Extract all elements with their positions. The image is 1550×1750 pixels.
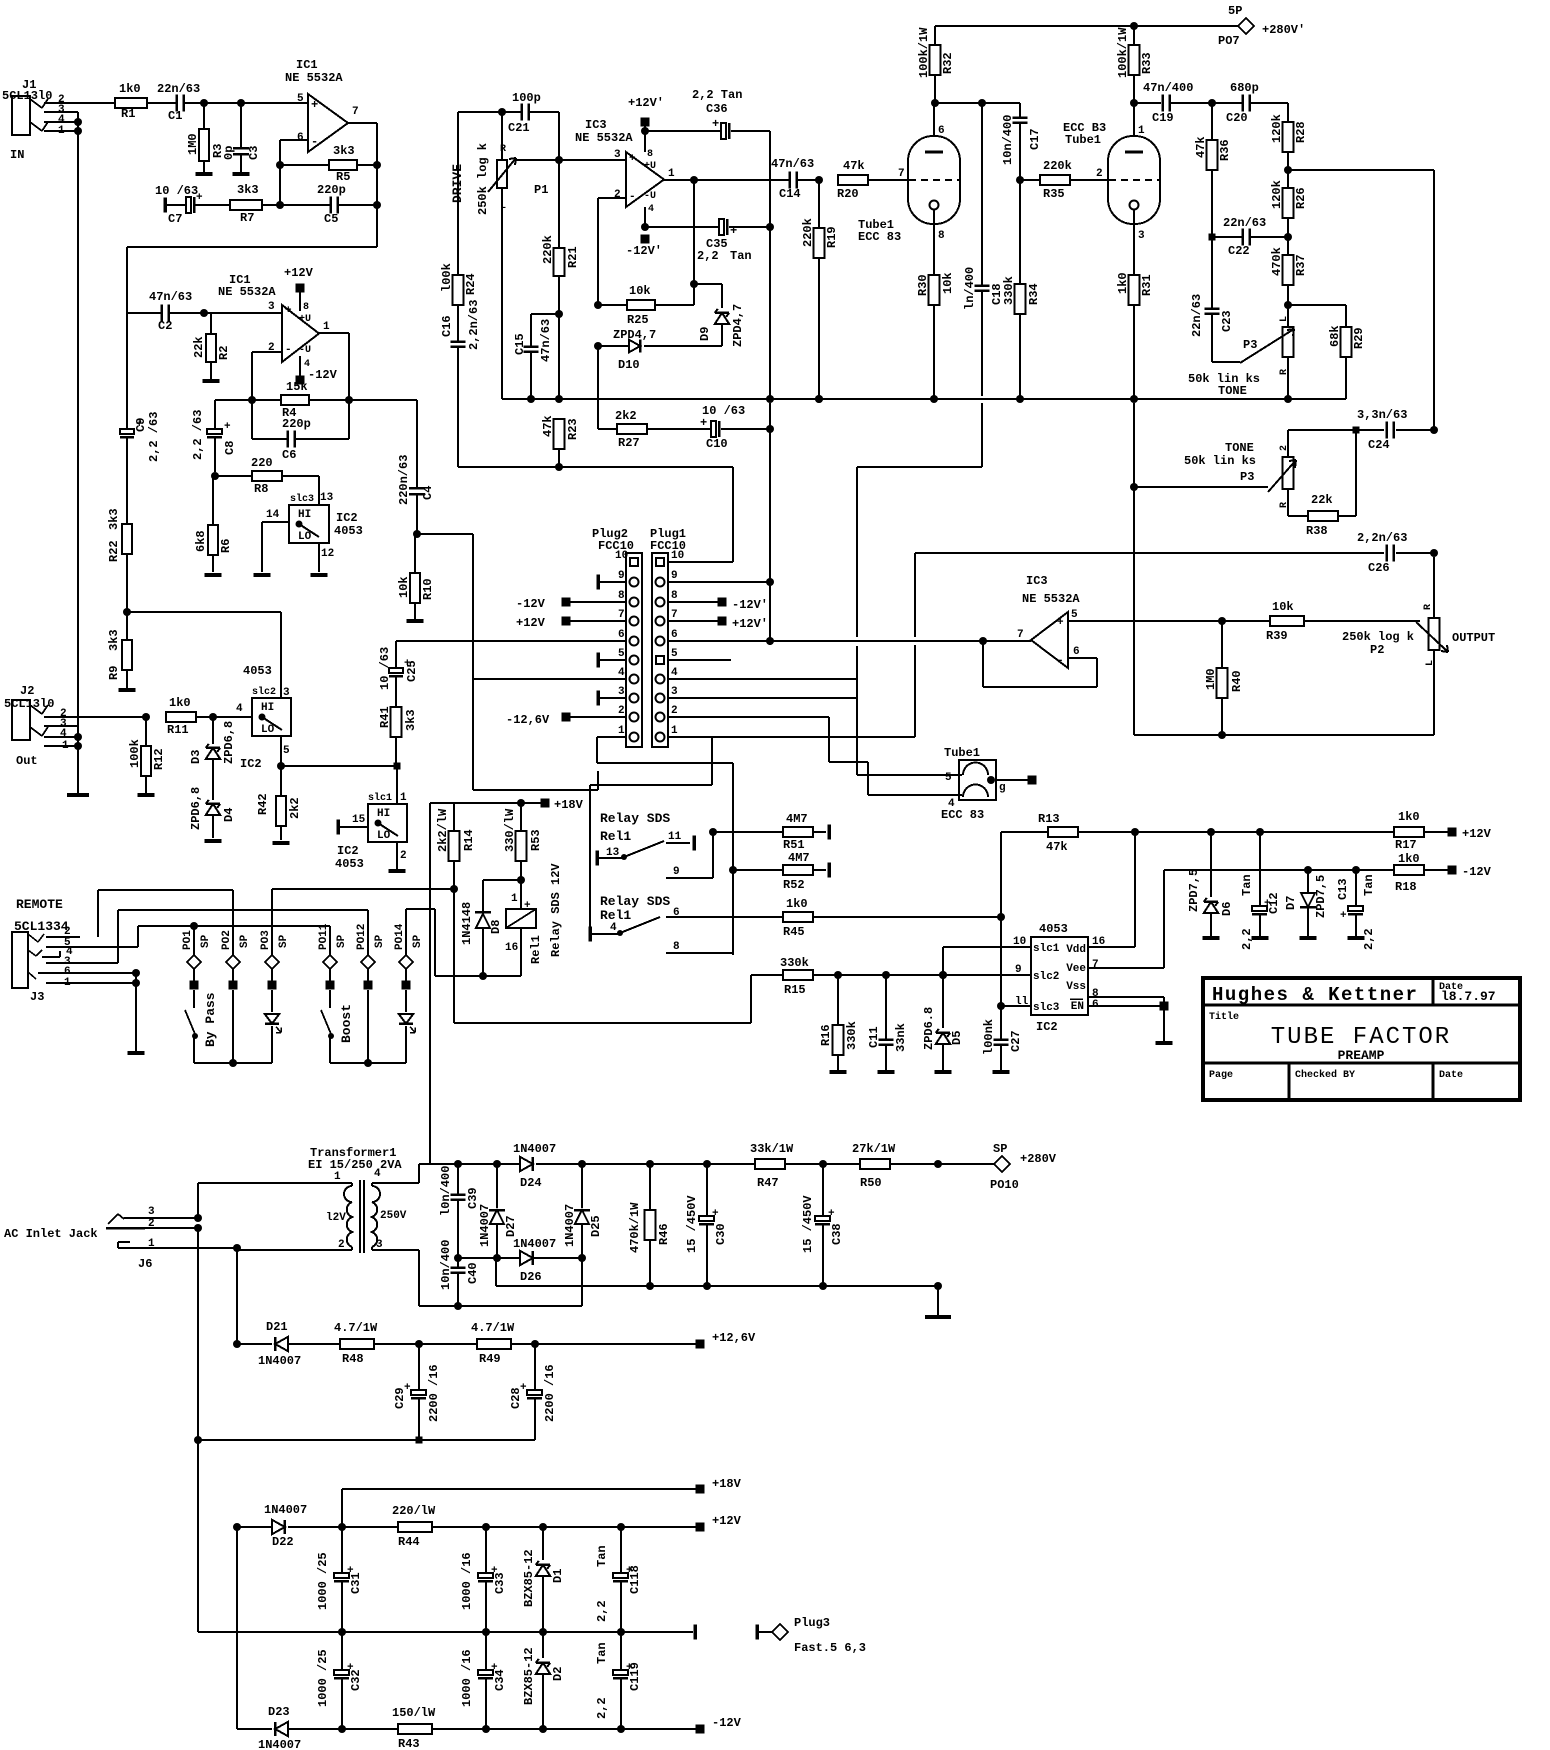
svg-text:C14: C14	[779, 187, 801, 201]
svg-text:SP: SP	[336, 934, 348, 948]
wire J1 to R1	[78, 102, 115, 104]
svg-text:C16: C16	[440, 315, 454, 337]
svg-text:HI: HI	[377, 808, 390, 820]
wire Plug2 pin1	[597, 736, 626, 738]
resistor R51	[783, 827, 813, 837]
svg-text:1: 1	[668, 168, 675, 180]
svg-text:LO: LO	[261, 724, 275, 736]
svg-text:C38: C38	[830, 1223, 844, 1245]
capacitor C40	[457, 1258, 459, 1267]
svg-text:C5: C5	[324, 212, 338, 226]
svg-text:R48: R48	[342, 1352, 364, 1366]
wire IC3a -in chain down	[597, 346, 599, 429]
svg-text:-12V': -12V'	[732, 598, 768, 612]
svg-text:8: 8	[673, 941, 680, 953]
svg-text:3: 3	[148, 1206, 155, 1218]
svg-text:R: R	[500, 144, 506, 155]
capacitor C8	[214, 400, 216, 429]
svg-text:NE 5532A: NE 5532A	[218, 285, 276, 299]
svg-text:IC2: IC2	[337, 844, 359, 858]
svg-text:9: 9	[1015, 964, 1022, 976]
svg-text:R46: R46	[657, 1223, 671, 1245]
svg-text:10n/400: 10n/400	[1001, 115, 1015, 165]
svg-text:C24: C24	[1368, 438, 1390, 452]
svg-text:R53: R53	[529, 829, 543, 851]
svg-text:8: 8	[647, 149, 653, 160]
svg-text:+U: +U	[644, 161, 656, 172]
svg-text:R38: R38	[1306, 524, 1328, 538]
svg-text:2200 /16: 2200 /16	[427, 1364, 441, 1422]
resistor R26	[1287, 170, 1289, 188]
wire C4 to R10	[415, 533, 473, 535]
terminal PO7 +280V	[1238, 18, 1254, 34]
pad PO3 with LED	[271, 889, 273, 956]
svg-text:4.7/1W: 4.7/1W	[334, 1321, 378, 1335]
svg-text:PO12: PO12	[356, 924, 368, 950]
svg-text:1N4007: 1N4007	[258, 1738, 301, 1750]
wire primary bottom	[351, 1247, 353, 1250]
ground under C11	[878, 1070, 895, 1074]
capacitor C12 tantalum	[1259, 832, 1261, 906]
op-amp IC1 A	[308, 94, 348, 152]
svg-text:1N4007: 1N4007	[264, 1503, 307, 1517]
svg-text:11: 11	[668, 831, 682, 843]
wire Plug2 pin3 stub	[596, 691, 600, 706]
svg-text:D9: D9	[698, 327, 712, 341]
capacitor C7	[163, 198, 167, 213]
capacitor C6	[251, 400, 253, 439]
wire +18V node	[430, 802, 545, 804]
svg-text:C28: C28	[509, 1387, 523, 1409]
svg-text:220p: 220p	[317, 183, 346, 197]
svg-text:3k3: 3k3	[404, 709, 418, 731]
connector J3 remote jack	[12, 932, 28, 988]
svg-text:Relay SDS: Relay SDS	[600, 894, 670, 909]
svg-text:47k: 47k	[1194, 136, 1208, 158]
svg-text:7: 7	[352, 106, 359, 118]
svg-text:J6: J6	[138, 1257, 152, 1271]
zener D7	[1307, 870, 1309, 897]
svg-text:10k: 10k	[629, 284, 651, 298]
svg-text:l00nk: l00nk	[982, 1019, 996, 1055]
stub Plug2 pin5	[596, 653, 600, 668]
svg-text:P3: P3	[1240, 470, 1254, 484]
ground under R42	[273, 841, 290, 845]
resistor R24	[457, 112, 459, 275]
svg-text:-12V: -12V	[516, 597, 546, 611]
svg-text:3k3: 3k3	[107, 629, 121, 651]
svg-text:+: +	[224, 421, 231, 433]
svg-text:R41: R41	[378, 706, 392, 728]
svg-text:C29: C29	[393, 1387, 407, 1409]
svg-text:47n/63: 47n/63	[771, 157, 814, 171]
resistor R6	[212, 476, 214, 525]
svg-text:R36: R36	[1218, 139, 1232, 161]
svg-text:250k log k: 250k log k	[476, 143, 490, 215]
svg-text:C11: C11	[867, 1026, 881, 1048]
capacitor C30	[706, 1164, 708, 1216]
resistor R50	[860, 1159, 890, 1169]
svg-text:Page: Page	[1209, 1070, 1233, 1081]
svg-text:SP: SP	[200, 934, 212, 948]
svg-text:4: 4	[60, 728, 67, 740]
resistor R20	[838, 175, 868, 185]
svg-text:R33: R33	[1140, 52, 1154, 74]
wire J3 pin3 net	[117, 910, 119, 963]
wire J3 ground net	[132, 969, 140, 977]
svg-text:C25: C25	[405, 660, 419, 682]
svg-text:C30: C30	[714, 1223, 728, 1245]
wire R22 node to slc2	[127, 611, 281, 613]
svg-text:Rel1: Rel1	[600, 908, 631, 923]
wire row C	[458, 466, 733, 468]
svg-text:R: R	[1423, 604, 1434, 610]
resistor R49	[477, 1339, 511, 1349]
svg-text:R5: R5	[336, 170, 350, 184]
svg-text:100k/1W: 100k/1W	[917, 27, 931, 78]
svg-text:8: 8	[303, 302, 309, 313]
svg-text:R7: R7	[240, 211, 254, 225]
diode D8 1N4148	[483, 879, 521, 881]
svg-text:100k: 100k	[128, 739, 142, 768]
svg-text:Tan: Tan	[1362, 874, 1376, 896]
svg-text:Rel1: Rel1	[600, 829, 631, 844]
svg-text:R19: R19	[825, 226, 839, 248]
svg-text:3: 3	[1138, 230, 1145, 242]
triode Tube1 A	[933, 103, 935, 150]
wire R45 column	[1000, 832, 1002, 917]
svg-text:C15: C15	[513, 333, 527, 355]
svg-text:C23: C23	[1220, 310, 1234, 332]
svg-text:C6: C6	[282, 448, 296, 462]
resistor R48	[340, 1339, 374, 1349]
svg-text:2: 2	[1096, 168, 1103, 180]
svg-text:+: +	[700, 416, 707, 430]
ground under D6	[1203, 936, 1220, 940]
svg-text:2,2: 2,2	[595, 1697, 609, 1719]
svg-text:J3: J3	[30, 990, 44, 1004]
svg-text:47k: 47k	[843, 159, 865, 173]
wire mid supply rail	[198, 1631, 693, 1633]
wire R28 junction right	[1288, 169, 1434, 171]
wire rectifier top rail	[419, 1163, 522, 1165]
svg-text:33nk: 33nk	[894, 1023, 908, 1052]
terminal Plug3	[755, 1625, 759, 1640]
svg-text:1N4007: 1N4007	[513, 1142, 556, 1156]
svg-text:ZPD6,8: ZPD6,8	[222, 721, 236, 764]
svg-text:R23: R23	[566, 418, 580, 440]
svg-text:47k: 47k	[541, 415, 555, 437]
svg-text:R22: R22	[107, 540, 121, 562]
svg-text:Tan: Tan	[1240, 874, 1254, 896]
svg-text:PO10: PO10	[990, 1178, 1019, 1192]
resistor R11	[142, 713, 150, 721]
ground Vss	[1156, 1041, 1173, 1045]
svg-text:R34: R34	[1027, 283, 1041, 305]
svg-text:Rel1: Rel1	[529, 935, 543, 964]
svg-text:l2V: l2V	[326, 1212, 346, 1224]
svg-text:120k: 120k	[1270, 114, 1284, 143]
ground under R10	[407, 619, 424, 623]
diode D24 1N4007	[520, 1157, 533, 1171]
svg-text:2: 2	[614, 189, 621, 201]
zener D3	[212, 717, 214, 744]
svg-text:Tube1: Tube1	[1065, 133, 1101, 147]
svg-text:1M0: 1M0	[186, 133, 200, 155]
svg-text:7: 7	[671, 609, 678, 621]
svg-text:1: 1	[58, 125, 65, 137]
svg-text:8: 8	[938, 230, 945, 242]
svg-text:1k0: 1k0	[1398, 852, 1420, 866]
svg-text:2: 2	[671, 705, 678, 717]
resistor R36	[1211, 103, 1213, 140]
svg-text:BZX85-12: BZX85-12	[522, 1549, 536, 1607]
svg-text:Tan: Tan	[595, 1642, 609, 1664]
resistor R28	[1287, 103, 1289, 122]
svg-text:13: 13	[606, 847, 620, 859]
pad PO12	[367, 910, 369, 956]
stub Plug2 pin9	[596, 575, 600, 590]
resistor R46	[649, 1164, 651, 1210]
svg-text:Tube1: Tube1	[944, 746, 980, 760]
potentiometer P1 DRIVE	[501, 112, 503, 160]
zener D2 BZX85-12	[542, 1632, 544, 1658]
svg-text:L: L	[1425, 660, 1436, 666]
capacitor C25	[395, 641, 397, 668]
svg-text:4: 4	[236, 703, 243, 715]
svg-text:3k3: 3k3	[107, 508, 121, 530]
svg-text:C17: C17	[1028, 128, 1042, 150]
pad PO1 with By Pass switch	[193, 926, 195, 956]
svg-text:PO2: PO2	[221, 930, 233, 950]
resistor R12	[145, 717, 147, 746]
potentiometer P3 upper TONE	[1283, 327, 1294, 357]
svg-text:Fast.5 6,3: Fast.5 6,3	[794, 1641, 866, 1655]
svg-text:27k/1W: 27k/1W	[852, 1142, 896, 1156]
capacitor C24	[1288, 429, 1384, 431]
svg-text:6k8: 6k8	[194, 530, 208, 552]
svg-text:By Pass: By Pass	[203, 992, 218, 1047]
wire -12V row	[1164, 869, 1395, 871]
svg-text:slc1: slc1	[368, 792, 392, 804]
wire secondary bottom	[371, 1247, 373, 1250]
svg-text:5: 5	[671, 648, 678, 660]
svg-text:Title: Title	[1209, 1011, 1239, 1023]
svg-text:C40: C40	[466, 1262, 480, 1284]
svg-text:22k: 22k	[192, 336, 206, 358]
svg-text:D23: D23	[268, 1705, 290, 1719]
svg-text:120k: 120k	[1270, 180, 1284, 209]
svg-text:1k0: 1k0	[1116, 272, 1130, 294]
svg-text:C8: C8	[223, 441, 237, 455]
wire IC1b -in	[252, 351, 282, 353]
svg-text:4053: 4053	[335, 857, 364, 871]
ground under R3	[196, 172, 213, 176]
svg-text:1k0: 1k0	[1398, 810, 1420, 824]
svg-text:C36: C36	[706, 102, 728, 116]
svg-text:1000 /25: 1000 /25	[316, 1552, 330, 1610]
svg-text:R14: R14	[462, 829, 476, 851]
power -12V' IC3a	[644, 207, 646, 227]
svg-text:2,2n/63: 2,2n/63	[1357, 531, 1407, 545]
svg-text:47n/63: 47n/63	[149, 290, 192, 304]
svg-text:7: 7	[898, 168, 905, 180]
svg-text:PO1: PO1	[182, 930, 194, 950]
svg-text:1000 /25: 1000 /25	[316, 1649, 330, 1707]
svg-text:C31: C31	[349, 1572, 363, 1594]
capacitor C4	[416, 400, 418, 487]
resistor R27	[598, 428, 617, 430]
title block frame	[1203, 978, 1520, 1100]
ground under C27	[993, 1070, 1010, 1074]
svg-text:16: 16	[505, 942, 518, 954]
svg-text:ln/400: ln/400	[963, 267, 977, 310]
potentiometer P2 OUTPUT	[1433, 557, 1435, 618]
ground under slc3 pin12	[311, 573, 328, 577]
svg-text:C13: C13	[1336, 878, 1350, 900]
wire +280V top rail	[935, 25, 1238, 27]
svg-text:R18: R18	[1395, 880, 1417, 894]
resistor R45	[783, 912, 813, 922]
svg-text:+280V': +280V'	[1262, 23, 1305, 37]
wire IC3b +in	[1068, 620, 1222, 622]
svg-text:P1: P1	[534, 183, 548, 197]
wire mid rail	[458, 1257, 582, 1259]
svg-text:10: 10	[615, 550, 628, 562]
svg-text:1: 1	[671, 725, 678, 737]
svg-text:R1: R1	[121, 107, 135, 121]
svg-text:5: 5	[283, 745, 290, 757]
svg-text:0p: 0p	[222, 146, 236, 160]
op-amp IC3 A	[626, 152, 664, 207]
wire top rail junctions	[578, 1160, 586, 1168]
svg-text:2,2n/63: 2,2n/63	[467, 300, 481, 350]
svg-text:SP: SP	[412, 934, 424, 948]
wire R1 to C1	[147, 102, 176, 104]
svg-text:2k2: 2k2	[288, 797, 302, 819]
svg-text:R11: R11	[167, 723, 189, 737]
potentiometer P3 lower	[1283, 457, 1294, 489]
heater junction g	[987, 776, 995, 784]
svg-text:47n/400: 47n/400	[1143, 81, 1193, 95]
svg-text:-12V': -12V'	[626, 244, 662, 258]
svg-text:8: 8	[671, 590, 678, 602]
resistor R43	[398, 1724, 432, 1734]
svg-text:R51: R51	[783, 838, 805, 852]
svg-text:1: 1	[323, 321, 330, 333]
zener D10	[598, 345, 630, 347]
wire R11 to slc2	[213, 716, 252, 718]
svg-text:220k: 220k	[801, 218, 815, 247]
svg-text:470k: 470k	[1270, 247, 1284, 276]
svg-text:+12V': +12V'	[628, 96, 664, 110]
capacitor C23	[1211, 237, 1213, 308]
resistor R21	[558, 160, 560, 248]
pad PO2	[232, 890, 234, 956]
ground under D7	[1300, 936, 1317, 940]
diode D21 1N4007	[237, 1343, 272, 1345]
svg-text:2,2: 2,2	[697, 249, 719, 263]
svg-text:PO7: PO7	[1218, 34, 1240, 48]
svg-text:Vdd: Vdd	[1066, 944, 1086, 956]
analog switch IC2 slc3	[318, 476, 320, 505]
svg-text:C4: C4	[421, 486, 435, 500]
zener D4	[206, 804, 220, 815]
svg-text:+: +	[1057, 617, 1064, 629]
svg-text:+: +	[1340, 910, 1347, 922]
svg-text:R37: R37	[1294, 254, 1308, 276]
svg-text:10k: 10k	[1272, 600, 1294, 614]
resistor R44	[398, 1522, 432, 1532]
connector J6 AC inlet	[108, 1214, 118, 1224]
wire plug2 pin4 left-down	[473, 789, 598, 791]
wire primary left down	[197, 1228, 199, 1440]
svg-text:R25: R25	[627, 313, 649, 327]
svg-text:-U: -U	[644, 191, 656, 202]
resistor R31	[1133, 209, 1135, 275]
wire C18 to heater net	[857, 466, 982, 468]
resistor R2	[210, 313, 212, 334]
wire IC3a -in	[598, 197, 626, 199]
wire transformer pin2 down	[236, 1250, 238, 1344]
wire secondary top	[371, 1183, 373, 1186]
svg-text:+12V: +12V	[516, 616, 546, 630]
wire IC3b feedback	[1068, 657, 1097, 659]
pins Plug1	[656, 558, 664, 566]
ground under R6	[205, 573, 222, 577]
resistor R4	[252, 399, 281, 401]
resistor R19	[818, 180, 820, 228]
svg-text:4: 4	[648, 204, 654, 215]
svg-text:R13: R13	[1038, 812, 1060, 826]
wire Plug1 pin1	[668, 736, 712, 738]
svg-text:C27: C27	[1009, 1030, 1023, 1052]
svg-text:SP: SP	[993, 1142, 1007, 1156]
svg-text:slc2: slc2	[252, 686, 276, 698]
resistor R16	[837, 975, 839, 1025]
svg-text:HI: HI	[298, 509, 311, 521]
svg-text:4053: 4053	[334, 524, 363, 538]
svg-text:ZPD6,8: ZPD6,8	[189, 787, 203, 830]
capacitor C34	[485, 1632, 487, 1670]
svg-text:5: 5	[945, 772, 952, 784]
wire pin4 bus	[473, 678, 626, 680]
wire +18V feed from PSU	[429, 803, 431, 1164]
diode D26 1N4007	[520, 1251, 533, 1265]
svg-text:220p: 220p	[282, 417, 311, 431]
wire R4 to C4	[349, 399, 417, 401]
resistor R47	[755, 1159, 785, 1169]
svg-text:R17: R17	[1395, 838, 1417, 852]
wire +12V' Plug1 pin7	[668, 620, 718, 622]
pad PO11 with Boost switch	[329, 926, 331, 956]
svg-text:PO14: PO14	[394, 923, 406, 950]
svg-text:22n/63: 22n/63	[1190, 294, 1204, 337]
wire Vdd to R13 row	[1088, 946, 1135, 948]
resistor R25	[598, 304, 627, 306]
resistor R15	[750, 975, 752, 1023]
svg-text:EN: EN	[1071, 1001, 1084, 1013]
svg-text:R20: R20	[837, 187, 859, 201]
wire tube1 top node	[935, 102, 1020, 104]
svg-text:1: 1	[618, 725, 625, 737]
svg-text:100k/1W: 100k/1W	[1116, 27, 1130, 78]
wire Boost rail	[330, 1062, 406, 1064]
svg-text:4: 4	[618, 667, 625, 679]
svg-text:P2: P2	[1370, 643, 1384, 657]
ground under slc1	[389, 869, 406, 873]
svg-text:10 /63: 10 /63	[378, 647, 392, 690]
